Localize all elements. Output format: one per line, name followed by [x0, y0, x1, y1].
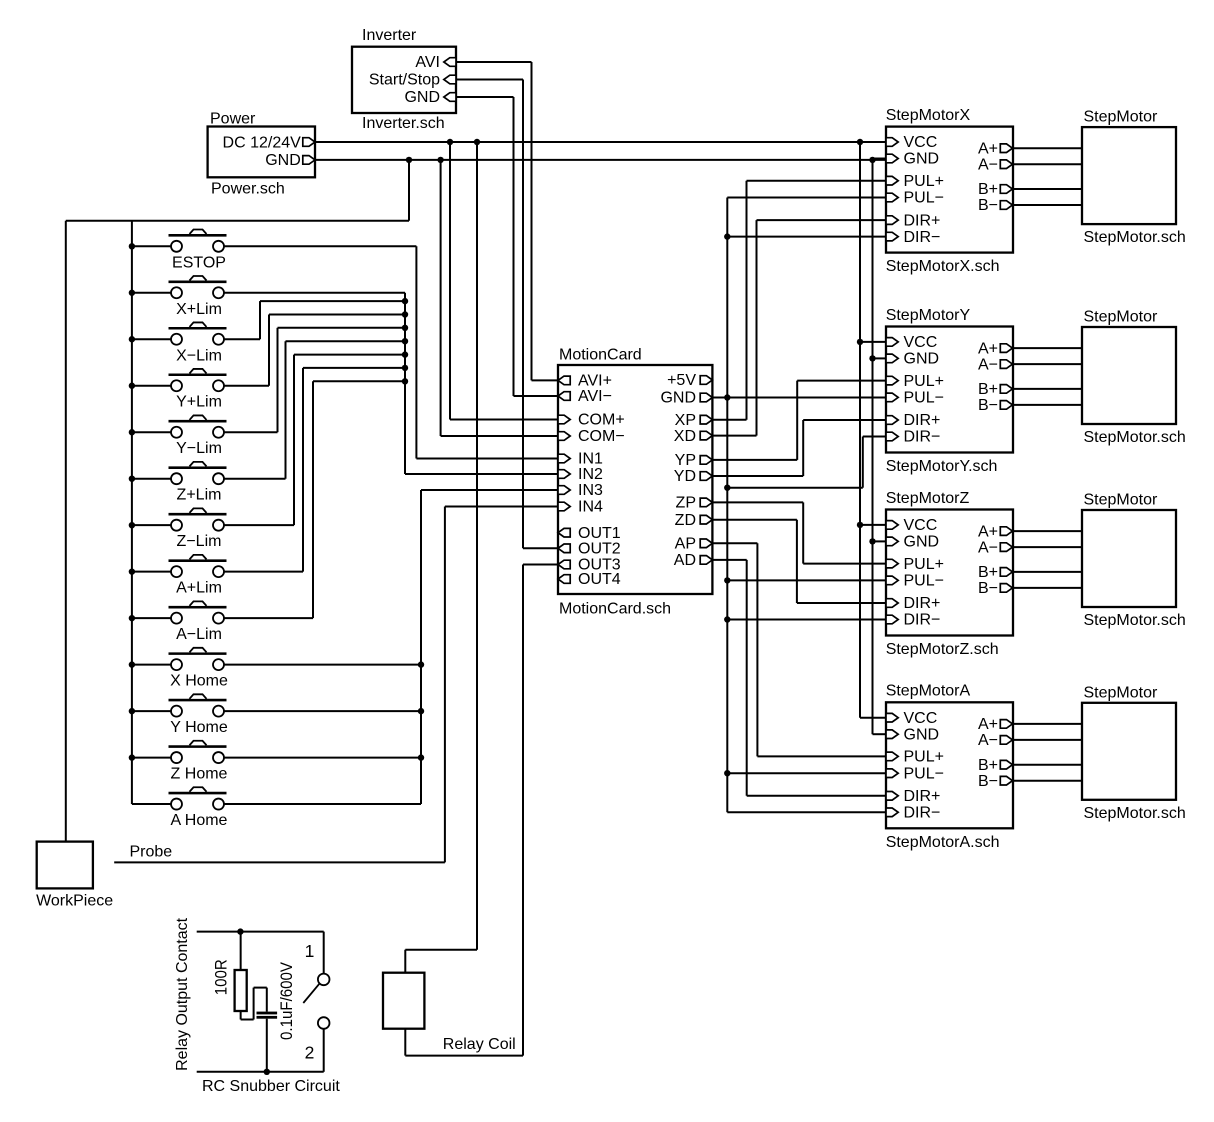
svg-text:PUL−: PUL− — [904, 765, 944, 782]
svg-text:YD: YD — [674, 468, 696, 485]
svg-text:PUL+: PUL+ — [904, 173, 944, 190]
svg-text:A−: A− — [978, 732, 998, 749]
svg-text:DIR+: DIR+ — [904, 595, 941, 612]
svg-text:StepMotor: StepMotor — [1084, 309, 1158, 326]
svg-text:Probe: Probe — [130, 843, 173, 860]
svg-text:A+Lim: A+Lim — [176, 580, 222, 597]
svg-text:PUL−: PUL− — [904, 190, 944, 207]
svg-text:B+: B+ — [978, 757, 998, 774]
svg-text:PUL+: PUL+ — [904, 556, 944, 573]
svg-text:AVI−: AVI− — [578, 388, 612, 405]
svg-text:DIR+: DIR+ — [904, 212, 941, 229]
svg-text:Y−Lim: Y−Lim — [176, 440, 222, 457]
svg-text:Y+Lim: Y+Lim — [176, 394, 222, 411]
svg-text:B+: B+ — [978, 181, 998, 198]
svg-text:StepMotorA: StepMotorA — [886, 683, 971, 700]
svg-text:0.1uF/600V: 0.1uF/600V — [278, 962, 296, 1040]
svg-text:DIR−: DIR− — [904, 229, 941, 246]
svg-text:A+: A+ — [978, 340, 998, 357]
svg-text:COM+: COM+ — [578, 412, 625, 429]
svg-text:Start/Stop: Start/Stop — [369, 72, 440, 89]
svg-text:Z+Lim: Z+Lim — [177, 487, 222, 504]
svg-text:PUL+: PUL+ — [904, 749, 944, 766]
svg-text:COM−: COM− — [578, 428, 625, 445]
svg-text:ESTOP: ESTOP — [172, 254, 226, 271]
svg-text:IN4: IN4 — [578, 499, 603, 516]
svg-text:Z−Lim: Z−Lim — [177, 533, 222, 550]
svg-text:A Home: A Home — [171, 812, 228, 829]
svg-text:Relay Coil: Relay Coil — [443, 1036, 516, 1053]
svg-text:AD: AD — [674, 552, 696, 569]
svg-text:DIR−: DIR− — [904, 429, 941, 446]
svg-text:A+: A+ — [978, 140, 998, 157]
svg-text:DC 12/24V: DC 12/24V — [223, 134, 302, 151]
svg-text:GND: GND — [265, 152, 301, 169]
svg-text:XD: XD — [674, 428, 696, 445]
svg-text:StepMotor: StepMotor — [1084, 109, 1158, 126]
svg-text:2: 2 — [305, 1043, 315, 1063]
svg-text:Relay Output Contact: Relay Output Contact — [174, 917, 191, 1071]
svg-text:RC Snubber Circuit: RC Snubber Circuit — [202, 1078, 340, 1095]
svg-text:IN2: IN2 — [578, 466, 603, 483]
svg-text:B−: B− — [978, 773, 998, 790]
svg-text:A+: A+ — [978, 523, 998, 540]
svg-text:X Home: X Home — [170, 673, 228, 690]
svg-text:B−: B− — [978, 197, 998, 214]
svg-text:MotionCard.sch: MotionCard.sch — [559, 601, 671, 618]
svg-text:1: 1 — [305, 941, 315, 961]
svg-text:DIR+: DIR+ — [904, 412, 941, 429]
svg-text:StepMotorA.sch: StepMotorA.sch — [886, 834, 1000, 851]
svg-text:StepMotor.sch: StepMotor.sch — [1084, 612, 1186, 629]
svg-text:VCC: VCC — [904, 334, 938, 351]
svg-text:Y Home: Y Home — [170, 719, 228, 736]
svg-text:VCC: VCC — [904, 517, 938, 534]
svg-text:Inverter.sch: Inverter.sch — [362, 115, 445, 132]
svg-text:Inverter: Inverter — [362, 27, 417, 44]
svg-text:StepMotorZ.sch: StepMotorZ.sch — [886, 641, 999, 658]
svg-text:AVI+: AVI+ — [578, 373, 612, 390]
svg-text:B+: B+ — [978, 564, 998, 581]
svg-text:A−: A− — [978, 539, 998, 556]
svg-text:PUL+: PUL+ — [904, 373, 944, 390]
svg-text:A+: A+ — [978, 716, 998, 733]
svg-text:YP: YP — [675, 452, 696, 469]
svg-text:OUT4: OUT4 — [578, 571, 621, 588]
svg-text:StepMotor.sch: StepMotor.sch — [1084, 229, 1186, 246]
svg-text:DIR−: DIR− — [904, 805, 941, 822]
svg-text:B−: B− — [978, 397, 998, 414]
svg-text:GND: GND — [404, 89, 440, 106]
svg-text:StepMotorX: StepMotorX — [886, 107, 971, 124]
svg-text:IN3: IN3 — [578, 482, 603, 499]
svg-text:StepMotorZ: StepMotorZ — [886, 490, 970, 507]
svg-text:B−: B− — [978, 580, 998, 597]
svg-text:PUL−: PUL− — [904, 573, 944, 590]
svg-text:GND: GND — [904, 534, 940, 551]
svg-text:GND: GND — [904, 726, 940, 743]
svg-text:ZD: ZD — [675, 512, 696, 529]
svg-text:MotionCard: MotionCard — [559, 347, 642, 364]
svg-text:IN1: IN1 — [578, 451, 603, 468]
svg-text:ZP: ZP — [676, 495, 696, 512]
svg-text:WorkPiece: WorkPiece — [36, 893, 113, 910]
svg-text:StepMotor: StepMotor — [1084, 684, 1158, 701]
svg-text:DIR+: DIR+ — [904, 788, 941, 805]
svg-text:GND: GND — [660, 390, 696, 407]
svg-text:Power: Power — [210, 110, 256, 127]
svg-text:XP: XP — [675, 412, 696, 429]
svg-text:B+: B+ — [978, 381, 998, 398]
svg-text:VCC: VCC — [904, 710, 938, 727]
svg-text:GND: GND — [904, 151, 940, 168]
svg-text:AP: AP — [675, 536, 696, 553]
svg-text:StepMotorY: StepMotorY — [886, 307, 971, 324]
svg-text:OUT2: OUT2 — [578, 541, 621, 558]
svg-text:X−Lim: X−Lim — [176, 347, 222, 364]
svg-text:StepMotor.sch: StepMotor.sch — [1084, 429, 1186, 446]
svg-text:OUT1: OUT1 — [578, 525, 621, 542]
svg-text:AVI: AVI — [415, 54, 440, 71]
svg-text:Power.sch: Power.sch — [211, 180, 285, 197]
svg-text:StepMotorX.sch: StepMotorX.sch — [886, 258, 1000, 275]
svg-text:StepMotor.sch: StepMotor.sch — [1084, 805, 1186, 822]
svg-text:DIR−: DIR− — [904, 612, 941, 629]
svg-text:A−: A− — [978, 356, 998, 373]
svg-text:StepMotor: StepMotor — [1084, 492, 1158, 509]
svg-text:GND: GND — [904, 351, 940, 368]
svg-text:VCC: VCC — [904, 134, 938, 151]
svg-text:+5V: +5V — [667, 372, 696, 389]
svg-text:A−Lim: A−Lim — [176, 626, 222, 643]
svg-text:A−: A− — [978, 156, 998, 173]
svg-text:100R: 100R — [212, 959, 231, 995]
svg-text:X+Lim: X+Lim — [176, 301, 222, 318]
svg-text:PUL−: PUL− — [904, 390, 944, 407]
svg-text:Z Home: Z Home — [171, 766, 228, 783]
svg-text:StepMotorY.sch: StepMotorY.sch — [886, 458, 998, 475]
